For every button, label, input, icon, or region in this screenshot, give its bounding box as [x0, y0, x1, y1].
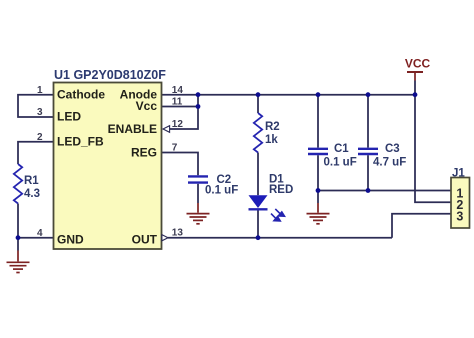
svg-text:4.7 uF: 4.7 uF	[373, 156, 406, 168]
svg-text:11: 11	[172, 97, 183, 108]
svg-text:4: 4	[37, 228, 43, 239]
svg-text:4.3: 4.3	[24, 188, 40, 200]
svg-text:12: 12	[172, 119, 184, 130]
svg-text:3: 3	[456, 210, 463, 224]
svg-text:1: 1	[37, 85, 43, 96]
svg-text:R1: R1	[24, 175, 39, 187]
svg-text:C1: C1	[334, 143, 349, 155]
svg-text:14: 14	[172, 85, 184, 96]
svg-text:U1 GP2Y0D810Z0F: U1 GP2Y0D810Z0F	[54, 68, 166, 82]
svg-text:GND: GND	[57, 232, 84, 246]
svg-text:0.1 uF: 0.1 uF	[205, 185, 238, 197]
svg-text:VCC: VCC	[405, 57, 431, 71]
svg-text:Vcc: Vcc	[136, 99, 158, 113]
svg-text:13: 13	[172, 227, 184, 238]
svg-text:REG: REG	[131, 146, 157, 160]
svg-text:3: 3	[37, 107, 43, 118]
svg-text:1k: 1k	[265, 134, 278, 146]
svg-text:Cathode: Cathode	[57, 87, 105, 101]
svg-text:ENABLE: ENABLE	[108, 122, 157, 136]
svg-text:LED: LED	[57, 110, 81, 124]
svg-text:J1: J1	[452, 167, 465, 179]
svg-text:C3: C3	[385, 143, 400, 155]
svg-text:R2: R2	[265, 121, 280, 133]
svg-text:0.1 uF: 0.1 uF	[324, 156, 357, 168]
svg-text:2: 2	[37, 132, 43, 143]
svg-text:OUT: OUT	[132, 232, 158, 246]
svg-text:7: 7	[172, 143, 178, 154]
svg-text:RED: RED	[269, 184, 293, 196]
svg-text:LED_FB: LED_FB	[57, 134, 104, 148]
